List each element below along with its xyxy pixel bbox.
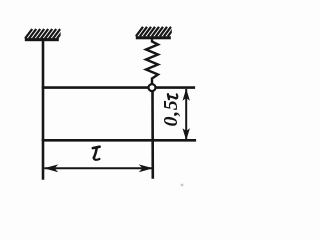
svg-text:0,5: 0,5 [160, 100, 182, 127]
